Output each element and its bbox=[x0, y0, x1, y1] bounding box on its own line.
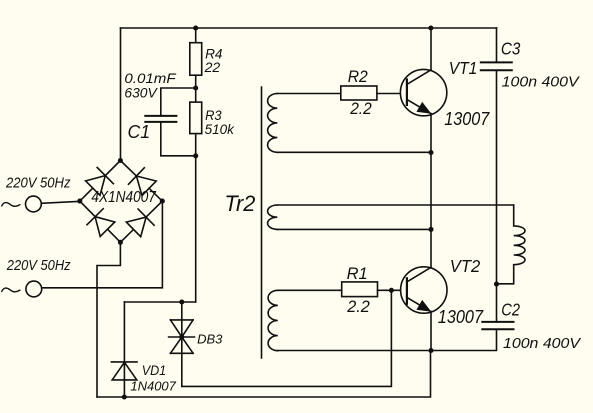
wire terminal1 to bridge bbox=[41, 201, 80, 203]
node bridge ac right bbox=[160, 199, 165, 204]
wire DB3 to base node bbox=[182, 290, 392, 386]
svg-text:C3: C3 bbox=[501, 39, 521, 59]
wire VT1 collector up bbox=[430, 28, 432, 70]
svg-text:R1: R1 bbox=[347, 265, 368, 283]
node VT2 base bbox=[389, 288, 394, 293]
wire C1 top jog bbox=[161, 88, 196, 116]
svg-text:VT1: VT1 bbox=[449, 58, 478, 78]
winding W1 top of Tr2 bbox=[268, 94, 278, 153]
node DB3 top bbox=[179, 299, 184, 304]
svg-text:100n 400V: 100n 400V bbox=[502, 74, 581, 91]
svg-text:13007: 13007 bbox=[444, 109, 490, 129]
capacitor C3 bbox=[481, 62, 512, 70]
capacitor C1 bbox=[145, 116, 176, 122]
svg-text:100n 400V: 100n 400V bbox=[503, 335, 582, 352]
bridge diode top-left bbox=[86, 168, 114, 196]
node top/R4 bbox=[193, 25, 198, 30]
winding W3 bottom of Tr2 bbox=[268, 290, 278, 350]
AC terminal 1 bbox=[26, 196, 42, 212]
svg-text:R2: R2 bbox=[348, 68, 368, 86]
wire W2 bottom to center column bbox=[277, 228, 431, 230]
capacitor C2 bbox=[482, 322, 513, 329]
wire bridge minus to bottom rail bbox=[97, 242, 120, 397]
node inductor / C2 bbox=[494, 282, 499, 287]
wire R1 to VT2 base bbox=[378, 289, 407, 291]
node VT1 emitter / W1 bbox=[428, 150, 433, 155]
bridge diode bottom-right bbox=[126, 209, 154, 237]
bridge diode top-right bbox=[129, 168, 157, 196]
inductor L bbox=[497, 205, 526, 284]
svg-text:0.01mF: 0.01mF bbox=[124, 71, 177, 86]
wire W1 top to R2 bbox=[277, 93, 341, 95]
wire main right column bbox=[496, 70, 498, 322]
node VT2 emitter rail bbox=[428, 348, 433, 353]
transistor VT2 bbox=[401, 267, 447, 313]
node bridge minus bbox=[118, 240, 123, 245]
svg-text:C2: C2 bbox=[501, 300, 520, 320]
svg-text:Tr2: Tr2 bbox=[224, 191, 255, 216]
wire left drop to bridge + bbox=[120, 28, 122, 161]
transistor VT1 bbox=[400, 69, 446, 115]
wire W1 bottom to VT1 emitter bbox=[277, 151, 431, 153]
svg-text:C1: C1 bbox=[128, 122, 151, 142]
resistor R2 bbox=[341, 86, 377, 100]
node R3/C1 bottom bbox=[193, 153, 198, 158]
bridge diode bottom-left bbox=[87, 209, 115, 237]
wire W2 top to inductor bbox=[277, 204, 513, 206]
svg-text:DB3: DB3 bbox=[197, 331, 223, 346]
wire R2 to VT1 base bbox=[377, 93, 407, 95]
svg-text:22: 22 bbox=[204, 59, 221, 75]
AC squiggle 1 bbox=[2, 203, 20, 207]
svg-text:4X1N4007: 4X1N4007 bbox=[91, 189, 157, 206]
wire bottom rail bbox=[97, 351, 431, 398]
wire W3 top to R1 bbox=[278, 289, 342, 291]
svg-text:2.2: 2.2 bbox=[349, 100, 371, 118]
wire emitter rail to C2 bbox=[278, 329, 497, 350]
wire VT2 emitter down bbox=[430, 312, 432, 351]
node bridge plus bbox=[118, 158, 123, 163]
svg-text:220V 50Hz: 220V 50Hz bbox=[6, 258, 71, 274]
node W2 bottom bbox=[428, 227, 433, 232]
wire R4-R3 link bbox=[195, 75, 197, 102]
wire center column VT1 emitter to VT2 collector bbox=[430, 153, 432, 268]
wire VT1 emitter down bbox=[430, 114, 432, 153]
svg-text:1N4007: 1N4007 bbox=[130, 378, 176, 393]
diode VD1 bbox=[111, 302, 137, 397]
svg-text:13007: 13007 bbox=[438, 307, 484, 327]
node VD1 bottom bbox=[122, 394, 127, 399]
wire top bus bbox=[121, 27, 497, 29]
diac DB3 bbox=[169, 302, 195, 386]
bridge rectifier diamond 4X1N4007 bbox=[80, 161, 163, 243]
svg-text:510k: 510k bbox=[205, 121, 235, 137]
wire R4 top lead bbox=[195, 28, 197, 43]
winding W2 middle of Tr2 bbox=[268, 205, 278, 229]
wire terminal2 to bridge right vertex bbox=[42, 201, 163, 288]
wire node row y302 bbox=[124, 301, 195, 303]
transformer Tr2 core bbox=[261, 87, 263, 358]
node bridge ac left bbox=[77, 199, 82, 204]
resistor R1 bbox=[342, 282, 378, 297]
resistor R4 bbox=[190, 43, 202, 75]
svg-text:VD1: VD1 bbox=[142, 363, 167, 378]
AC terminal 2 bbox=[26, 281, 42, 297]
node top/VT1 collector bbox=[428, 25, 433, 30]
svg-text:220V 50Hz: 220V 50Hz bbox=[5, 175, 70, 191]
svg-text:630V: 630V bbox=[124, 86, 158, 101]
node DB3 center bbox=[179, 334, 184, 339]
wire column down to DB3 node bbox=[195, 156, 197, 302]
wire right drop to C3 bbox=[496, 28, 498, 62]
node R4/R3/C1 bbox=[193, 85, 198, 90]
resistor R3 bbox=[190, 102, 202, 134]
wire R3 bottom lead bbox=[195, 134, 197, 156]
AC squiggle 2 bbox=[2, 288, 20, 292]
svg-text:2.2: 2.2 bbox=[346, 298, 369, 316]
svg-text:VT2: VT2 bbox=[450, 256, 481, 276]
wire C1 bottom jog bbox=[161, 122, 196, 156]
